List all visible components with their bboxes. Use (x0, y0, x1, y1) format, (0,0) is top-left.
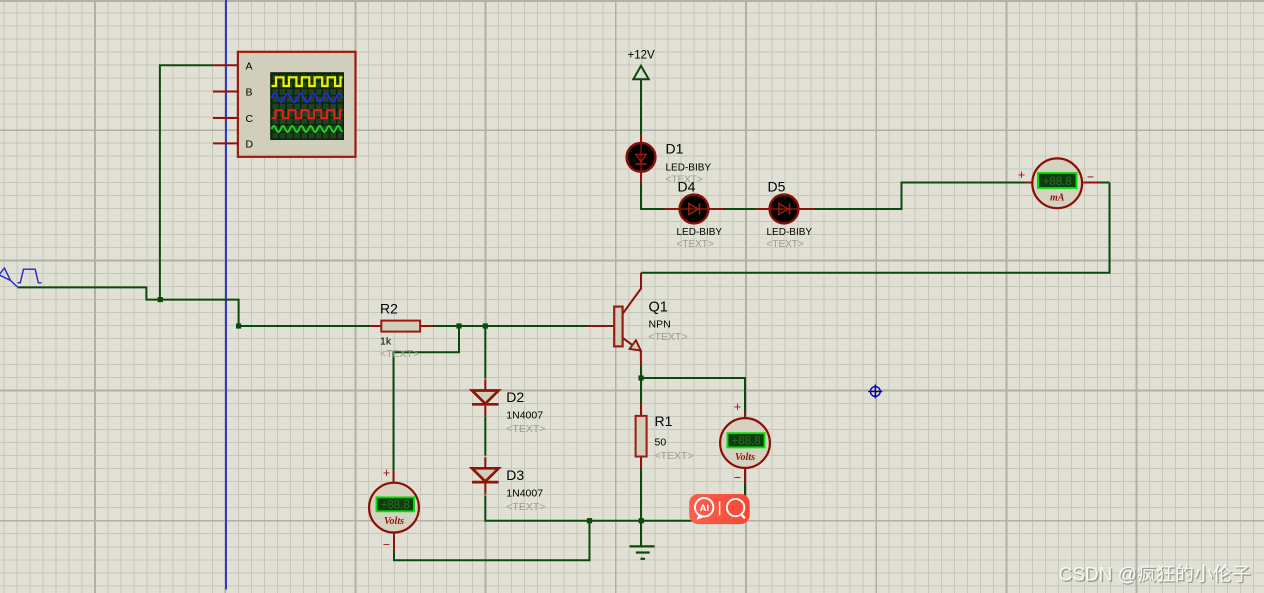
wire R1 to ground (640, 467, 642, 546)
svg-text:R2: R2 (380, 301, 398, 317)
wire D1 to D4 (641, 184, 665, 209)
CSDN AI-search overlay icon (689, 494, 750, 524)
wire base bus to R2 (239, 325, 370, 327)
scope trace channel D (green sine) (272, 126, 343, 132)
scope pin D (213, 142, 238, 144)
svg-text:<TEXT>: <TEXT> (506, 501, 545, 513)
LED D1 (640, 134, 642, 144)
svg-text:LED-BIBY: LED-BIBY (666, 163, 712, 174)
junction (158, 297, 163, 302)
svg-text:NPN: NPN (649, 318, 671, 330)
svg-text:<TEXT>: <TEXT> (506, 423, 545, 435)
wire scope-A to source net (160, 65, 213, 299)
origin crosshair marker (868, 385, 882, 399)
junction (587, 518, 592, 523)
ammeter mA (1025, 182, 1032, 184)
svg-text:D5: D5 (768, 179, 786, 195)
svg-text:1N4007: 1N4007 (506, 409, 543, 421)
svg-text:<TEXT>: <TEXT> (655, 450, 694, 462)
svg-text:Volts: Volts (735, 452, 755, 463)
wire from pulse source (18, 287, 239, 326)
svg-text:D3: D3 (506, 467, 524, 483)
svg-text:C: C (246, 113, 254, 125)
diode D3 (484, 457, 486, 468)
svg-text:+88.8: +88.8 (731, 435, 760, 447)
svg-text:+88.8: +88.8 (1043, 176, 1072, 188)
svg-text:LED-BIBY: LED-BIBY (677, 227, 723, 238)
wire R2 to Q1 base (433, 325, 589, 327)
junction (639, 518, 644, 523)
wire collector to ammeter loop (641, 183, 1110, 273)
svg-text:<TEXT>: <TEXT> (649, 331, 688, 343)
svg-text:1N4007: 1N4007 (506, 487, 543, 499)
svg-text:<TEXT>: <TEXT> (767, 239, 804, 250)
scope pin B (213, 91, 238, 93)
LED D5 (755, 208, 770, 210)
wire power to D1 (640, 79, 642, 134)
voltmeter right (across R1) (744, 412, 746, 417)
oscilloscope (238, 52, 356, 157)
svg-text:B: B (246, 87, 253, 99)
wire D4 to D5 (723, 208, 755, 210)
resistor R1 (640, 403, 642, 416)
svg-text:AI: AI (700, 503, 710, 514)
scope trace channel B (blue sine) (272, 94, 343, 102)
wire to left voltmeter + (394, 326, 460, 470)
svg-text:D4: D4 (678, 179, 696, 195)
transistor Q1 (588, 273, 641, 366)
editor boundary line (225, 0, 227, 590)
svg-text:D1: D1 (666, 141, 684, 157)
junction (236, 323, 241, 328)
svg-text:LED-BIBY: LED-BIBY (767, 227, 813, 238)
svg-text:A: A (246, 60, 253, 72)
junction (638, 375, 643, 380)
svg-text:+: + (1018, 168, 1025, 182)
scope pin A (213, 64, 238, 66)
pulse generator source (0, 268, 42, 287)
junction (456, 323, 461, 328)
svg-text:+: + (383, 466, 390, 480)
junction (483, 323, 488, 328)
wire D2 to D3 (484, 417, 486, 456)
svg-text:50: 50 (655, 437, 667, 449)
ground (630, 546, 655, 558)
wire D3 to ground bus (485, 484, 745, 521)
svg-text:1k: 1k (380, 335, 392, 347)
svg-text:Volts: Volts (384, 516, 404, 527)
power +12V (628, 50, 656, 80)
svg-text:+88.8: +88.8 (381, 499, 410, 511)
svg-text:<TEXT>: <TEXT> (380, 348, 419, 360)
wire left voltmeter - to ground bus (394, 521, 590, 561)
svg-text:−: − (734, 471, 741, 485)
diode D2 (484, 380, 486, 391)
wire emitter junction (640, 365, 642, 403)
LED D4 (665, 208, 681, 210)
CSDN watermark (1059, 564, 1252, 586)
scope trace channel A (yellow square) (272, 77, 343, 86)
wire junction to right voltmeter + (641, 378, 745, 412)
voltmeter left (393, 470, 395, 482)
svg-text:+: + (734, 400, 741, 414)
svg-text:<TEXT>: <TEXT> (677, 239, 714, 250)
svg-text:CSDN @: CSDN @ (1059, 565, 1137, 586)
svg-text:Q1: Q1 (649, 299, 668, 315)
svg-text:−: − (383, 538, 390, 552)
svg-text:−: − (1087, 170, 1094, 184)
svg-text:mA: mA (1050, 193, 1065, 204)
wire D5 to ammeter + (815, 183, 1025, 210)
svg-text:D2: D2 (506, 389, 524, 405)
scope trace channel C (red square) (272, 110, 343, 118)
svg-text:+12V: +12V (628, 50, 656, 62)
svg-text:D: D (246, 139, 254, 151)
resistor R2 (370, 325, 381, 327)
scope pin C (213, 117, 238, 119)
scope channel labels (246, 60, 254, 150)
svg-text:R1: R1 (655, 413, 673, 429)
wire to D2 (484, 326, 486, 379)
